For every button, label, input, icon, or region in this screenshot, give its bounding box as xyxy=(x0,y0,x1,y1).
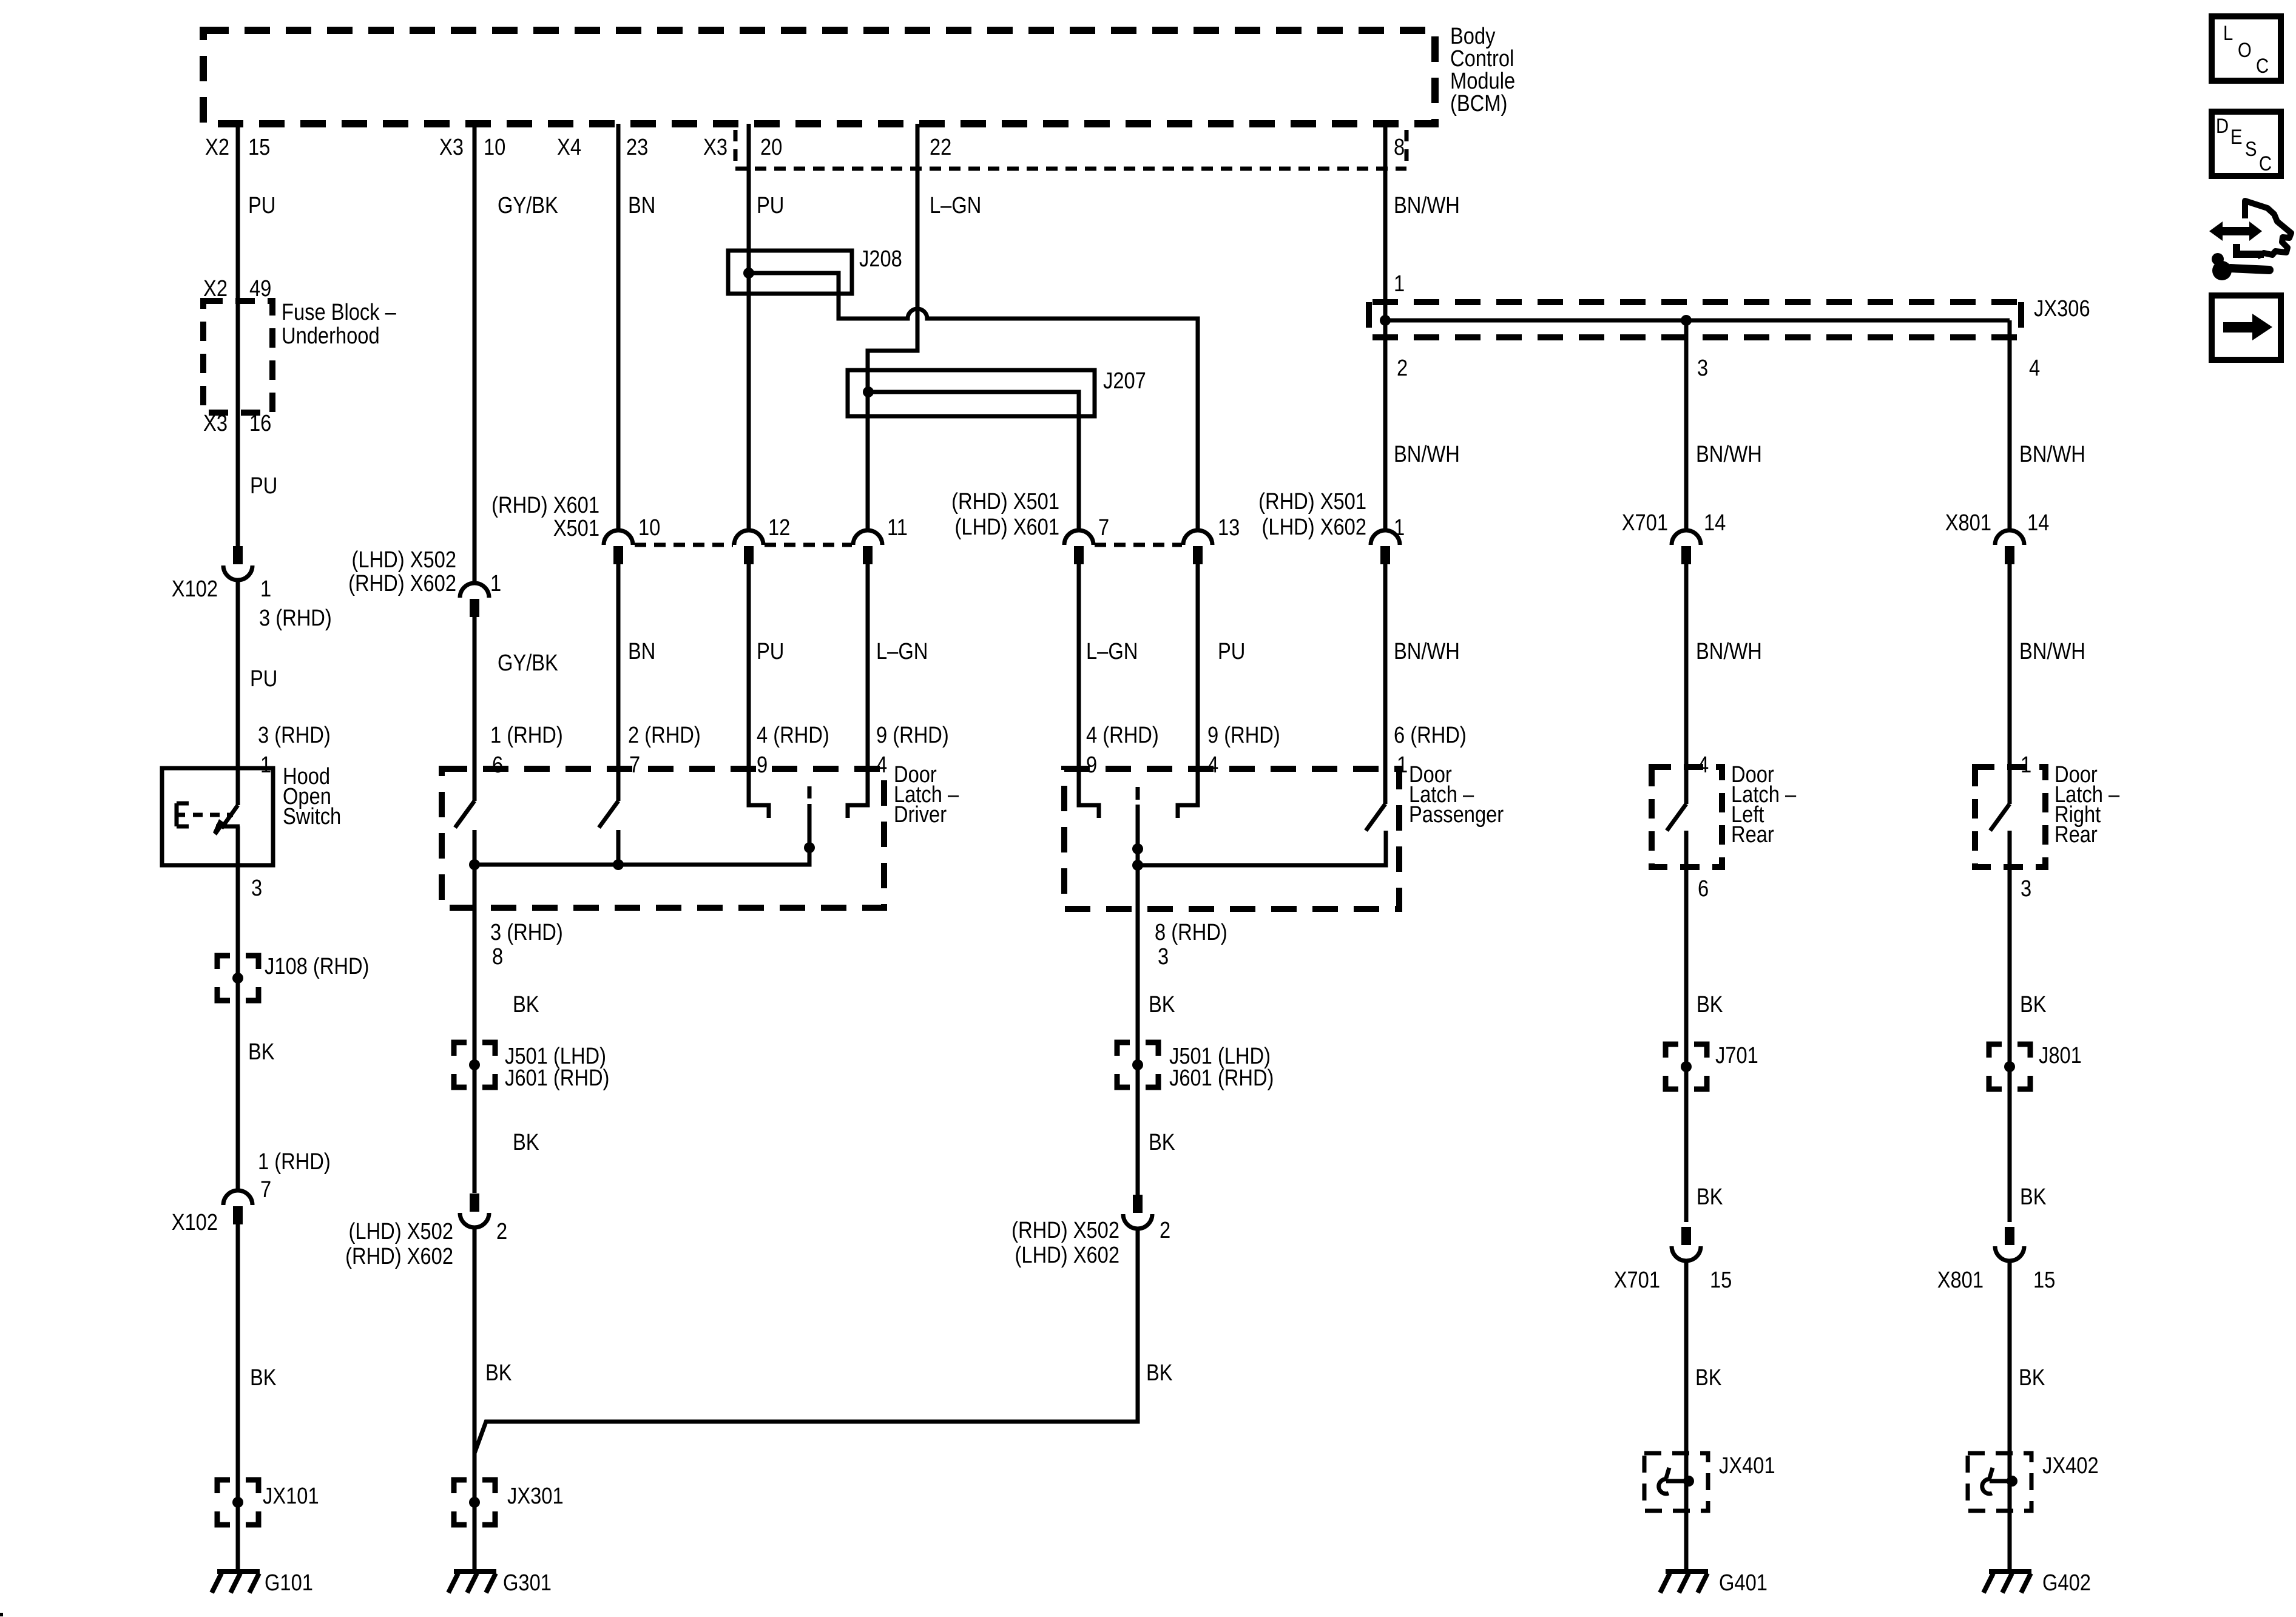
svg-text:X801: X801 xyxy=(1937,1267,1984,1293)
svg-text:L–GN: L–GN xyxy=(876,638,928,664)
svg-text:BN: BN xyxy=(628,638,655,664)
svg-text:X2: X2 xyxy=(203,275,228,302)
svg-text:BN/WH: BN/WH xyxy=(1394,441,1460,467)
svg-text:4: 4 xyxy=(2029,355,2040,381)
svg-text:BK: BK xyxy=(2020,1184,2047,1210)
svg-text:L–GN: L–GN xyxy=(1086,638,1138,664)
wire PU col7 into passenger latch (hook contact) xyxy=(1178,564,1198,818)
svg-text:X3: X3 xyxy=(703,134,728,160)
svg-text:1: 1 xyxy=(490,570,501,596)
wire BN/WH col10 into right rear latch xyxy=(2008,564,2012,804)
svg-text:C: C xyxy=(2256,54,2269,78)
svg-text:6 (RHD): 6 (RHD) xyxy=(1394,722,1467,748)
svg-text:O: O xyxy=(2238,38,2252,62)
splice J701 xyxy=(1666,1044,1707,1089)
svg-text:Rear: Rear xyxy=(2055,822,2098,848)
wire BN/WH col8 into passenger latch xyxy=(1383,564,1388,804)
wire BK col10 to ground G402 xyxy=(2008,1260,2012,1571)
svg-text:GY/BK: GY/BK xyxy=(498,192,558,218)
in-line connector X502/X602 pin 2 xyxy=(460,1193,489,1227)
svg-text:(RHD) X502: (RHD) X502 xyxy=(1011,1217,1119,1243)
svg-text:22: 22 xyxy=(930,134,951,160)
passenger latch common wire and bus xyxy=(1138,805,1386,909)
svg-text:PU: PU xyxy=(757,638,784,664)
hood switch blade with arrow tip xyxy=(221,805,238,828)
ground G402 xyxy=(1984,1571,2031,1593)
svg-text:15: 15 xyxy=(1710,1267,1732,1293)
bus junction dots xyxy=(469,859,480,870)
svg-text:9: 9 xyxy=(1086,752,1097,778)
wire PU col4 from BCM X3-20 xyxy=(747,124,751,532)
svg-text:G101: G101 xyxy=(265,1570,313,1596)
svg-text:10: 10 xyxy=(484,134,505,160)
junction dot col9 xyxy=(1681,315,1692,326)
splice pack JX401 xyxy=(1644,1453,1708,1511)
X501 connector dashed row lines xyxy=(635,543,1182,547)
splice JX301 xyxy=(454,1480,495,1525)
wire col1 below hood switch through J108 xyxy=(236,826,240,1190)
wire BN/WH col9 into left rear latch xyxy=(1684,564,1689,804)
svg-text:BN/WH: BN/WH xyxy=(1394,638,1460,664)
svg-text:9: 9 xyxy=(757,752,768,778)
svg-text:BN/WH: BN/WH xyxy=(2019,638,2085,664)
svg-text:20: 20 xyxy=(760,134,782,160)
wire BK col2 below driver latch xyxy=(473,906,477,1193)
svg-text:7: 7 xyxy=(629,752,640,778)
in-line connector X501 pin 10 xyxy=(604,530,633,564)
hand with double arrow and wrench icon xyxy=(2209,221,2262,241)
Door Latch Left Rear dashed box xyxy=(1652,767,1722,867)
svg-text:3 (RHD): 3 (RHD) xyxy=(259,605,332,631)
wire BN/WH col9 from JX306 xyxy=(1684,320,1689,532)
svg-text:(LHD) X601: (LHD) X601 xyxy=(955,514,1059,540)
svg-text:BK: BK xyxy=(513,1129,539,1155)
svg-text:(LHD) X602: (LHD) X602 xyxy=(1262,514,1366,540)
LOC icon box xyxy=(2212,16,2281,81)
svg-text:15: 15 xyxy=(2033,1267,2055,1293)
svg-text:1 (RHD): 1 (RHD) xyxy=(490,722,563,748)
svg-text:(LHD) X502: (LHD) X502 xyxy=(352,547,456,573)
svg-text:2: 2 xyxy=(1397,355,1408,381)
svg-text:1: 1 xyxy=(1394,271,1405,297)
svg-text:Switch: Switch xyxy=(283,803,341,829)
Door Latch Driver dashed box xyxy=(442,769,884,908)
svg-text:7: 7 xyxy=(1098,515,1109,541)
wire col10 below right rear latch xyxy=(2008,831,2012,1222)
svg-text:GY/BK: GY/BK xyxy=(498,650,558,676)
wire BN/WH col8 from BCM pin 8 xyxy=(1383,124,1388,532)
left rear latch blade xyxy=(1667,804,1686,831)
svg-text:1: 1 xyxy=(260,576,271,602)
svg-text:(BCM): (BCM) xyxy=(1450,90,1507,116)
in-line connector X502/X602 pin 2 passenger xyxy=(1123,1195,1152,1229)
svg-text:8: 8 xyxy=(492,944,503,970)
splice J207 box xyxy=(848,370,1095,416)
svg-text:J801: J801 xyxy=(2039,1042,2082,1068)
svg-text:J207: J207 xyxy=(1103,368,1146,394)
wire PU col1 from BCM X2-15 xyxy=(236,124,240,546)
Door Latch Right Rear dashed box xyxy=(1975,767,2045,867)
Door Latch Passenger dashed box xyxy=(1064,769,1399,909)
svg-text:BK: BK xyxy=(513,991,539,1018)
DESC icon box xyxy=(2212,112,2281,176)
in-line connector X801 pin 14 xyxy=(1995,530,2024,564)
svg-text:3: 3 xyxy=(2021,876,2031,902)
svg-text:JX402: JX402 xyxy=(2042,1453,2099,1479)
svg-text:X102: X102 xyxy=(172,576,218,602)
svg-text:Driver: Driver xyxy=(894,802,947,828)
svg-text:BK: BK xyxy=(1149,1129,1175,1155)
forward arrow icon box xyxy=(2212,295,2281,360)
svg-text:BN: BN xyxy=(628,192,655,218)
in-line connector X502/X602 pin 1 xyxy=(460,583,489,617)
splice J501/J601 passenger xyxy=(1117,1042,1158,1087)
svg-text:X3: X3 xyxy=(203,410,228,436)
svg-text:4: 4 xyxy=(876,752,887,778)
wrench xyxy=(2212,261,2232,280)
J207 junction dot xyxy=(863,387,874,397)
wire BK col2 to ground G301 xyxy=(473,1226,477,1571)
svg-text:PU: PU xyxy=(250,473,277,499)
svg-text:16: 16 xyxy=(249,410,271,436)
svg-text:49: 49 xyxy=(249,275,271,302)
svg-text:X701: X701 xyxy=(1622,510,1668,536)
svg-text:23: 23 xyxy=(626,134,648,160)
svg-text:G301: G301 xyxy=(503,1570,552,1596)
svg-text:13: 13 xyxy=(1218,515,1240,541)
svg-text:12: 12 xyxy=(768,515,790,541)
svg-text:4: 4 xyxy=(1207,752,1218,778)
svg-text:X3: X3 xyxy=(439,134,464,160)
in-line connector X501 pin 11 xyxy=(853,530,882,564)
svg-text:Passenger: Passenger xyxy=(1409,802,1504,828)
svg-text:1 (RHD): 1 (RHD) xyxy=(258,1149,331,1175)
svg-text:BK: BK xyxy=(1695,1365,1722,1391)
svg-text:PU: PU xyxy=(248,192,275,218)
svg-text:BK: BK xyxy=(248,1039,275,1065)
svg-text:6: 6 xyxy=(1698,876,1709,902)
svg-text:15: 15 xyxy=(248,134,270,160)
svg-text:BN/WH: BN/WH xyxy=(1696,441,1762,467)
in-line connector X501/X602 pin 1 xyxy=(1371,530,1400,564)
svg-text:(RHD) X602: (RHD) X602 xyxy=(345,1243,453,1269)
right rear latch blade xyxy=(1990,804,2010,831)
svg-text:X4: X4 xyxy=(557,134,581,160)
wire GY/BK col2 from BCM X3-10 xyxy=(473,124,477,585)
svg-text:9 (RHD): 9 (RHD) xyxy=(1207,722,1280,748)
svg-text:G402: G402 xyxy=(2042,1570,2091,1596)
svg-text:J208: J208 xyxy=(859,246,902,272)
svg-text:PU: PU xyxy=(757,192,784,218)
J208 junction dot xyxy=(743,268,754,279)
passenger latch common dashed stub xyxy=(1136,787,1140,800)
svg-text:(RHD) X501: (RHD) X501 xyxy=(951,488,1059,515)
splice J208 box xyxy=(728,251,852,294)
wire L-GN col5 into driver latch (hook contact) xyxy=(848,564,868,818)
passenger latch switch blade col8 xyxy=(1366,804,1385,831)
J207 branch wire to col6 xyxy=(868,392,1079,532)
svg-text:BN/WH: BN/WH xyxy=(1696,638,1762,664)
in-line connector X501 pin 12 xyxy=(734,530,763,564)
svg-text:3: 3 xyxy=(1697,355,1708,381)
svg-text:14: 14 xyxy=(2027,510,2049,536)
hood switch fixed contact xyxy=(216,825,240,829)
splice strip JX306 dashed box xyxy=(1369,302,2021,337)
svg-text:(LHD) X502: (LHD) X502 xyxy=(349,1218,453,1244)
wire BK col1 to ground xyxy=(236,1224,240,1571)
in-line connector X102 pin 7 xyxy=(223,1190,252,1224)
in-line connector X801 pin 15 xyxy=(1995,1227,2024,1261)
ground G301 xyxy=(448,1571,496,1593)
svg-text:J108 (RHD): J108 (RHD) xyxy=(265,953,369,979)
wire L-GN col6 into passenger latch (hook contact) xyxy=(1079,564,1099,818)
svg-text:4 (RHD): 4 (RHD) xyxy=(757,722,829,748)
svg-text:J601 (RHD): J601 (RHD) xyxy=(505,1065,609,1091)
svg-text:Fuse Block –: Fuse Block – xyxy=(282,299,396,325)
Fuse Block Underhood dashed box xyxy=(203,301,272,413)
svg-text:JX306: JX306 xyxy=(2034,295,2090,322)
in-line connector X501/X601 pin 13 xyxy=(1183,530,1212,564)
splice J801 xyxy=(1989,1044,2030,1089)
wire BK passenger below latch xyxy=(1136,909,1140,1195)
svg-text:3: 3 xyxy=(1158,944,1169,970)
svg-text:J701: J701 xyxy=(1715,1042,1758,1068)
splice J108 (RHD) xyxy=(217,956,258,1001)
svg-text:E: E xyxy=(2230,125,2242,149)
svg-text:6: 6 xyxy=(492,752,503,778)
svg-text:X102: X102 xyxy=(172,1209,218,1235)
page corner mark xyxy=(0,1613,3,1616)
svg-text:11: 11 xyxy=(887,515,908,541)
svg-text:X801: X801 xyxy=(1945,510,1991,536)
driver latch common wire and bus xyxy=(474,804,809,908)
wire PU col4 into driver latch (hook contact) xyxy=(749,564,769,818)
wire BK passenger joins col2 run to G301 xyxy=(474,1227,1138,1453)
svg-text:JX301: JX301 xyxy=(507,1483,564,1509)
svg-text:BK: BK xyxy=(1146,1360,1173,1386)
splice pack JX402 xyxy=(1968,1453,2031,1511)
svg-text:2 (RHD): 2 (RHD) xyxy=(628,722,701,748)
svg-text:X501: X501 xyxy=(553,515,599,541)
Body Control Module (BCM) dashed box xyxy=(203,30,1435,124)
svg-text:9 (RHD): 9 (RHD) xyxy=(876,722,949,748)
svg-text:L–GN: L–GN xyxy=(930,192,981,218)
svg-text:D: D xyxy=(2216,114,2229,138)
svg-text:BK: BK xyxy=(2019,1365,2045,1391)
svg-text:PU: PU xyxy=(250,666,277,692)
svg-text:S: S xyxy=(2245,137,2257,161)
svg-text:J601 (RHD): J601 (RHD) xyxy=(1169,1065,1274,1091)
wire col9 below left rear latch xyxy=(1684,831,1689,1222)
svg-text:1: 1 xyxy=(260,752,271,778)
svg-text:JX101: JX101 xyxy=(263,1483,319,1509)
wire BN/WH col10 from JX306 xyxy=(2008,320,2012,532)
svg-text:BK: BK xyxy=(1697,1184,1723,1210)
svg-text:PU: PU xyxy=(1218,638,1245,664)
Hood Open Switch box xyxy=(162,768,273,865)
splice JX101 xyxy=(217,1480,258,1525)
in-line connector X501/X601 pin 7 xyxy=(1064,530,1093,564)
svg-text:2: 2 xyxy=(1160,1217,1170,1243)
driver latch common dashed stub xyxy=(808,786,812,798)
svg-text:Underhood: Underhood xyxy=(282,323,380,349)
svg-text:3 (RHD): 3 (RHD) xyxy=(490,919,563,945)
splice J501/J601 driver xyxy=(454,1042,495,1087)
JX306 bus wire xyxy=(1385,319,2010,323)
svg-text:G401: G401 xyxy=(1719,1570,1768,1596)
driver latch switch blade col3 xyxy=(599,801,618,828)
driver latch switch blade col2 xyxy=(455,801,474,828)
hood switch actuator E and dashed link xyxy=(177,803,189,826)
svg-text:BK: BK xyxy=(485,1360,512,1386)
ground G401 xyxy=(1660,1571,1708,1593)
svg-text:BN/WH: BN/WH xyxy=(1394,192,1460,218)
svg-text:C: C xyxy=(2259,152,2272,175)
svg-text:3 (RHD): 3 (RHD) xyxy=(258,722,331,748)
svg-text:Rear: Rear xyxy=(1731,822,1774,848)
wire PU col1 to hood switch xyxy=(236,579,240,805)
svg-text:8: 8 xyxy=(1394,134,1405,160)
svg-text:10: 10 xyxy=(638,515,660,541)
BCM connector X3 dashed strip xyxy=(735,130,1406,169)
svg-text:7: 7 xyxy=(260,1176,271,1203)
svg-text:8 (RHD): 8 (RHD) xyxy=(1155,919,1227,945)
wire L-GN col5 from BCM pin 22, jog left xyxy=(868,124,917,532)
svg-text:2: 2 xyxy=(496,1218,507,1244)
svg-text:X701: X701 xyxy=(1614,1267,1660,1293)
svg-text:3: 3 xyxy=(251,875,262,901)
in-line connector X701 pin 15 xyxy=(1672,1227,1701,1261)
J208 branch wire to col7 with hop over L-GN xyxy=(749,273,1198,532)
svg-text:X2: X2 xyxy=(205,134,229,160)
svg-text:BK: BK xyxy=(250,1365,277,1391)
svg-text:14: 14 xyxy=(1704,510,1726,536)
svg-text:(RHD) X601: (RHD) X601 xyxy=(491,492,599,518)
svg-text:4 (RHD): 4 (RHD) xyxy=(1086,722,1159,748)
svg-text:(RHD) X602: (RHD) X602 xyxy=(348,570,456,596)
svg-text:(LHD) X602: (LHD) X602 xyxy=(1015,1242,1119,1268)
svg-text:L: L xyxy=(2223,21,2233,45)
svg-text:BN/WH: BN/WH xyxy=(2019,441,2085,467)
ground G101 xyxy=(212,1571,260,1593)
svg-text:JX401: JX401 xyxy=(1719,1453,1775,1479)
svg-text:(RHD) X501: (RHD) X501 xyxy=(1258,488,1366,515)
wire GY/BK col2 into driver latch xyxy=(473,617,477,801)
wire BN col3 from BCM X4-23 xyxy=(616,124,621,532)
svg-text:BK: BK xyxy=(1697,991,1723,1018)
junction dot col8 xyxy=(1380,315,1391,326)
wire BK col9 to ground G401 xyxy=(1684,1260,1689,1571)
svg-text:BK: BK xyxy=(1149,991,1175,1018)
in-line connector X701 pin 14 xyxy=(1672,530,1701,564)
in-line connector X102 pin 1 xyxy=(223,546,252,580)
wire BN col3 into driver latch xyxy=(616,564,621,801)
svg-text:BK: BK xyxy=(2020,991,2047,1018)
